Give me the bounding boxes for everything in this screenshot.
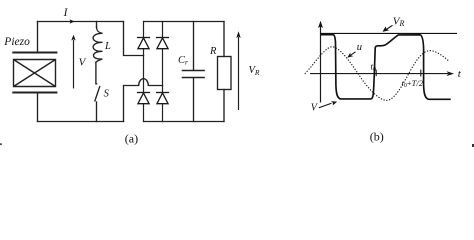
piezo top plate [12, 52, 57, 54]
tick t0+T/2 [420, 70, 422, 77]
piezo box with X [14, 60, 56, 87]
wire: resistor branch top [223, 22, 225, 57]
wire: left rail upper [37, 22, 39, 53]
diode D2 (top right) [156, 38, 169, 49]
output voltage VR arrow [236, 31, 240, 110]
displacement u dotted sinusoid [305, 47, 449, 101]
vertical axis [320, 27, 322, 103]
capacitor Cr [183, 22, 205, 122]
wire: between L and switch [95, 62, 98, 84]
svg-text:S: S [104, 89, 110, 100]
wire: bridge right branch [162, 22, 164, 122]
piezo bottom plate [12, 92, 57, 94]
wire: inductor-switch branch top [96, 22, 98, 28]
wire: top rail left circuit [38, 21, 124, 23]
svg-text:u: u [357, 42, 362, 53]
wire: bridge left branch [143, 22, 145, 122]
tick t0 [375, 70, 377, 77]
corner mark bottom-left [0, 143, 2, 145]
svg-text:(a): (a) [125, 131, 138, 145]
piezo element [12, 53, 57, 93]
diode D3 (bottom left) [137, 93, 150, 104]
switch S blade [95, 87, 100, 101]
wire: bridge bottom rail [144, 121, 225, 123]
voltage V arrow (up) [71, 35, 75, 89]
capacitor plates [183, 70, 205, 72]
resistor box [218, 57, 232, 90]
corner mark bottom-right [472, 144, 474, 147]
wire: bottom rail left circuit [38, 121, 124, 123]
wire: AC node 1 (top corner down to bridge left mid) [124, 22, 144, 56]
svg-text:L: L [104, 41, 111, 52]
inductor L coil [93, 27, 102, 62]
wire: cap branch bottom [193, 78, 195, 121]
current I arrow on top wire [70, 19, 75, 24]
resistor R [218, 22, 232, 122]
piezo voltage V waveform (bold square-like) [321, 35, 451, 100]
horizontal t axis [310, 73, 448, 75]
wire: cap branch top [193, 22, 195, 70]
svg-text:R: R [209, 46, 217, 57]
svg-text:Cr: Cr [178, 55, 188, 67]
VR output line (DC) [321, 32, 458, 34]
diode D1 (top left) [137, 38, 150, 49]
wire: below switch to bottom rail [96, 102, 98, 122]
wire: resistor branch bottom [223, 90, 225, 122]
diode D4 (bottom right) [156, 93, 169, 104]
wire: AC node 2 (bottom corner up, hop over left branch, to right branch) [124, 79, 163, 122]
wire: left rail lower [37, 93, 39, 122]
svg-text:Piezo: Piezo [3, 36, 30, 48]
svg-text:(b): (b) [370, 129, 384, 143]
wire: bridge top rail [144, 21, 225, 23]
